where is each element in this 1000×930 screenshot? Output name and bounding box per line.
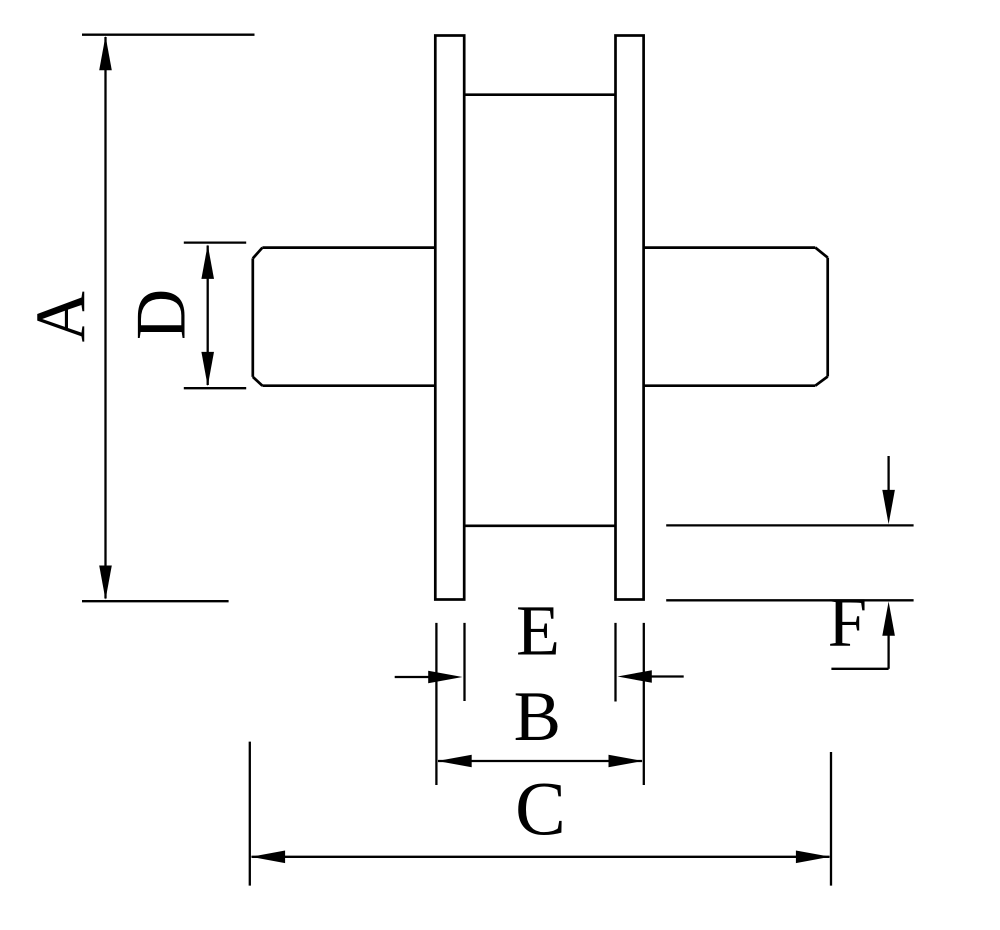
- dim C line: [252, 856, 830, 858]
- dim E right arrowhead: [618, 670, 652, 683]
- dim D line: [207, 246, 209, 386]
- shaft left bottom chamfer: [253, 377, 263, 386]
- dim D top extension line: [184, 241, 246, 243]
- shaft right top line: [644, 246, 816, 249]
- dim C left arrowhead: [251, 851, 285, 864]
- dim F leader line: [831, 668, 888, 670]
- svg-text:E: E: [516, 591, 560, 671]
- shaft right end face: [826, 258, 829, 377]
- dim F up arrow tail: [887, 633, 889, 669]
- dim E left extension line: [463, 623, 465, 701]
- dim A bottom arrowhead: [99, 566, 112, 600]
- shaft left bottom line: [262, 384, 435, 387]
- dim E right leader line: [650, 675, 684, 677]
- dim D bottom arrowhead: [201, 352, 214, 386]
- dim E left arrowhead: [428, 671, 462, 684]
- dim C right extension line: [830, 752, 832, 886]
- dim F up arrowhead: [882, 602, 895, 636]
- dim A line: [104, 37, 106, 599]
- dim A top extension line: [82, 34, 255, 36]
- dim B left arrowhead: [437, 755, 471, 768]
- dim E left leader line: [395, 676, 430, 678]
- shaft right top chamfer: [815, 248, 827, 258]
- dim C right arrowhead: [796, 851, 830, 864]
- dim F upper reference line: [666, 524, 913, 526]
- dim B left extension line: [435, 623, 437, 785]
- right flange: [616, 36, 644, 600]
- dim B right extension line: [643, 623, 645, 785]
- left flange: [435, 36, 464, 600]
- dim F lower reference line: [666, 599, 913, 601]
- dim C left extension line: [249, 742, 251, 886]
- shaft left end face: [251, 258, 254, 377]
- dim A bottom extension line: [82, 600, 229, 602]
- shaft right bottom line: [644, 384, 816, 387]
- shaft right bottom chamfer: [815, 377, 827, 386]
- svg-text:F: F: [828, 584, 868, 662]
- shaft left top line: [262, 246, 435, 249]
- shaft left top chamfer: [253, 248, 263, 259]
- dim D top arrowhead: [201, 245, 214, 279]
- svg-text:D: D: [123, 289, 201, 340]
- dim F down arrow tail: [887, 456, 889, 492]
- dim B right arrowhead: [609, 755, 643, 768]
- dim A top arrowhead: [99, 36, 112, 70]
- dim D bottom extension line: [184, 387, 246, 389]
- svg-text:A: A: [22, 291, 100, 342]
- label A: [22, 291, 100, 342]
- hub top line: [464, 93, 615, 96]
- dim B line: [438, 760, 642, 762]
- svg-text:B: B: [514, 678, 561, 756]
- hub bottom line: [464, 524, 615, 527]
- label D: [123, 289, 201, 340]
- dim F down arrowhead: [882, 490, 895, 524]
- svg-text:C: C: [515, 768, 566, 852]
- dim E right extension line: [614, 623, 616, 702]
